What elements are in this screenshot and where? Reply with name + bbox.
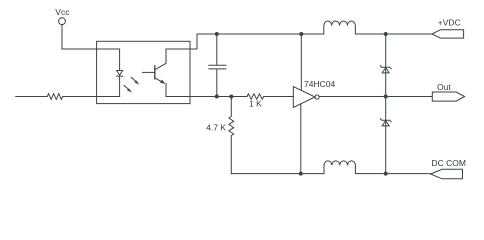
svg-text:Vcc: Vcc [55,7,70,17]
svg-text:Out: Out [437,82,451,92]
svg-text:+VDC: +VDC [438,18,461,28]
svg-text:74HC04: 74HC04 [304,79,335,89]
svg-text:DC COM: DC COM [432,158,466,168]
svg-text:1 K: 1 K [249,98,262,108]
svg-text:4.7 K: 4.7 K [206,123,226,133]
